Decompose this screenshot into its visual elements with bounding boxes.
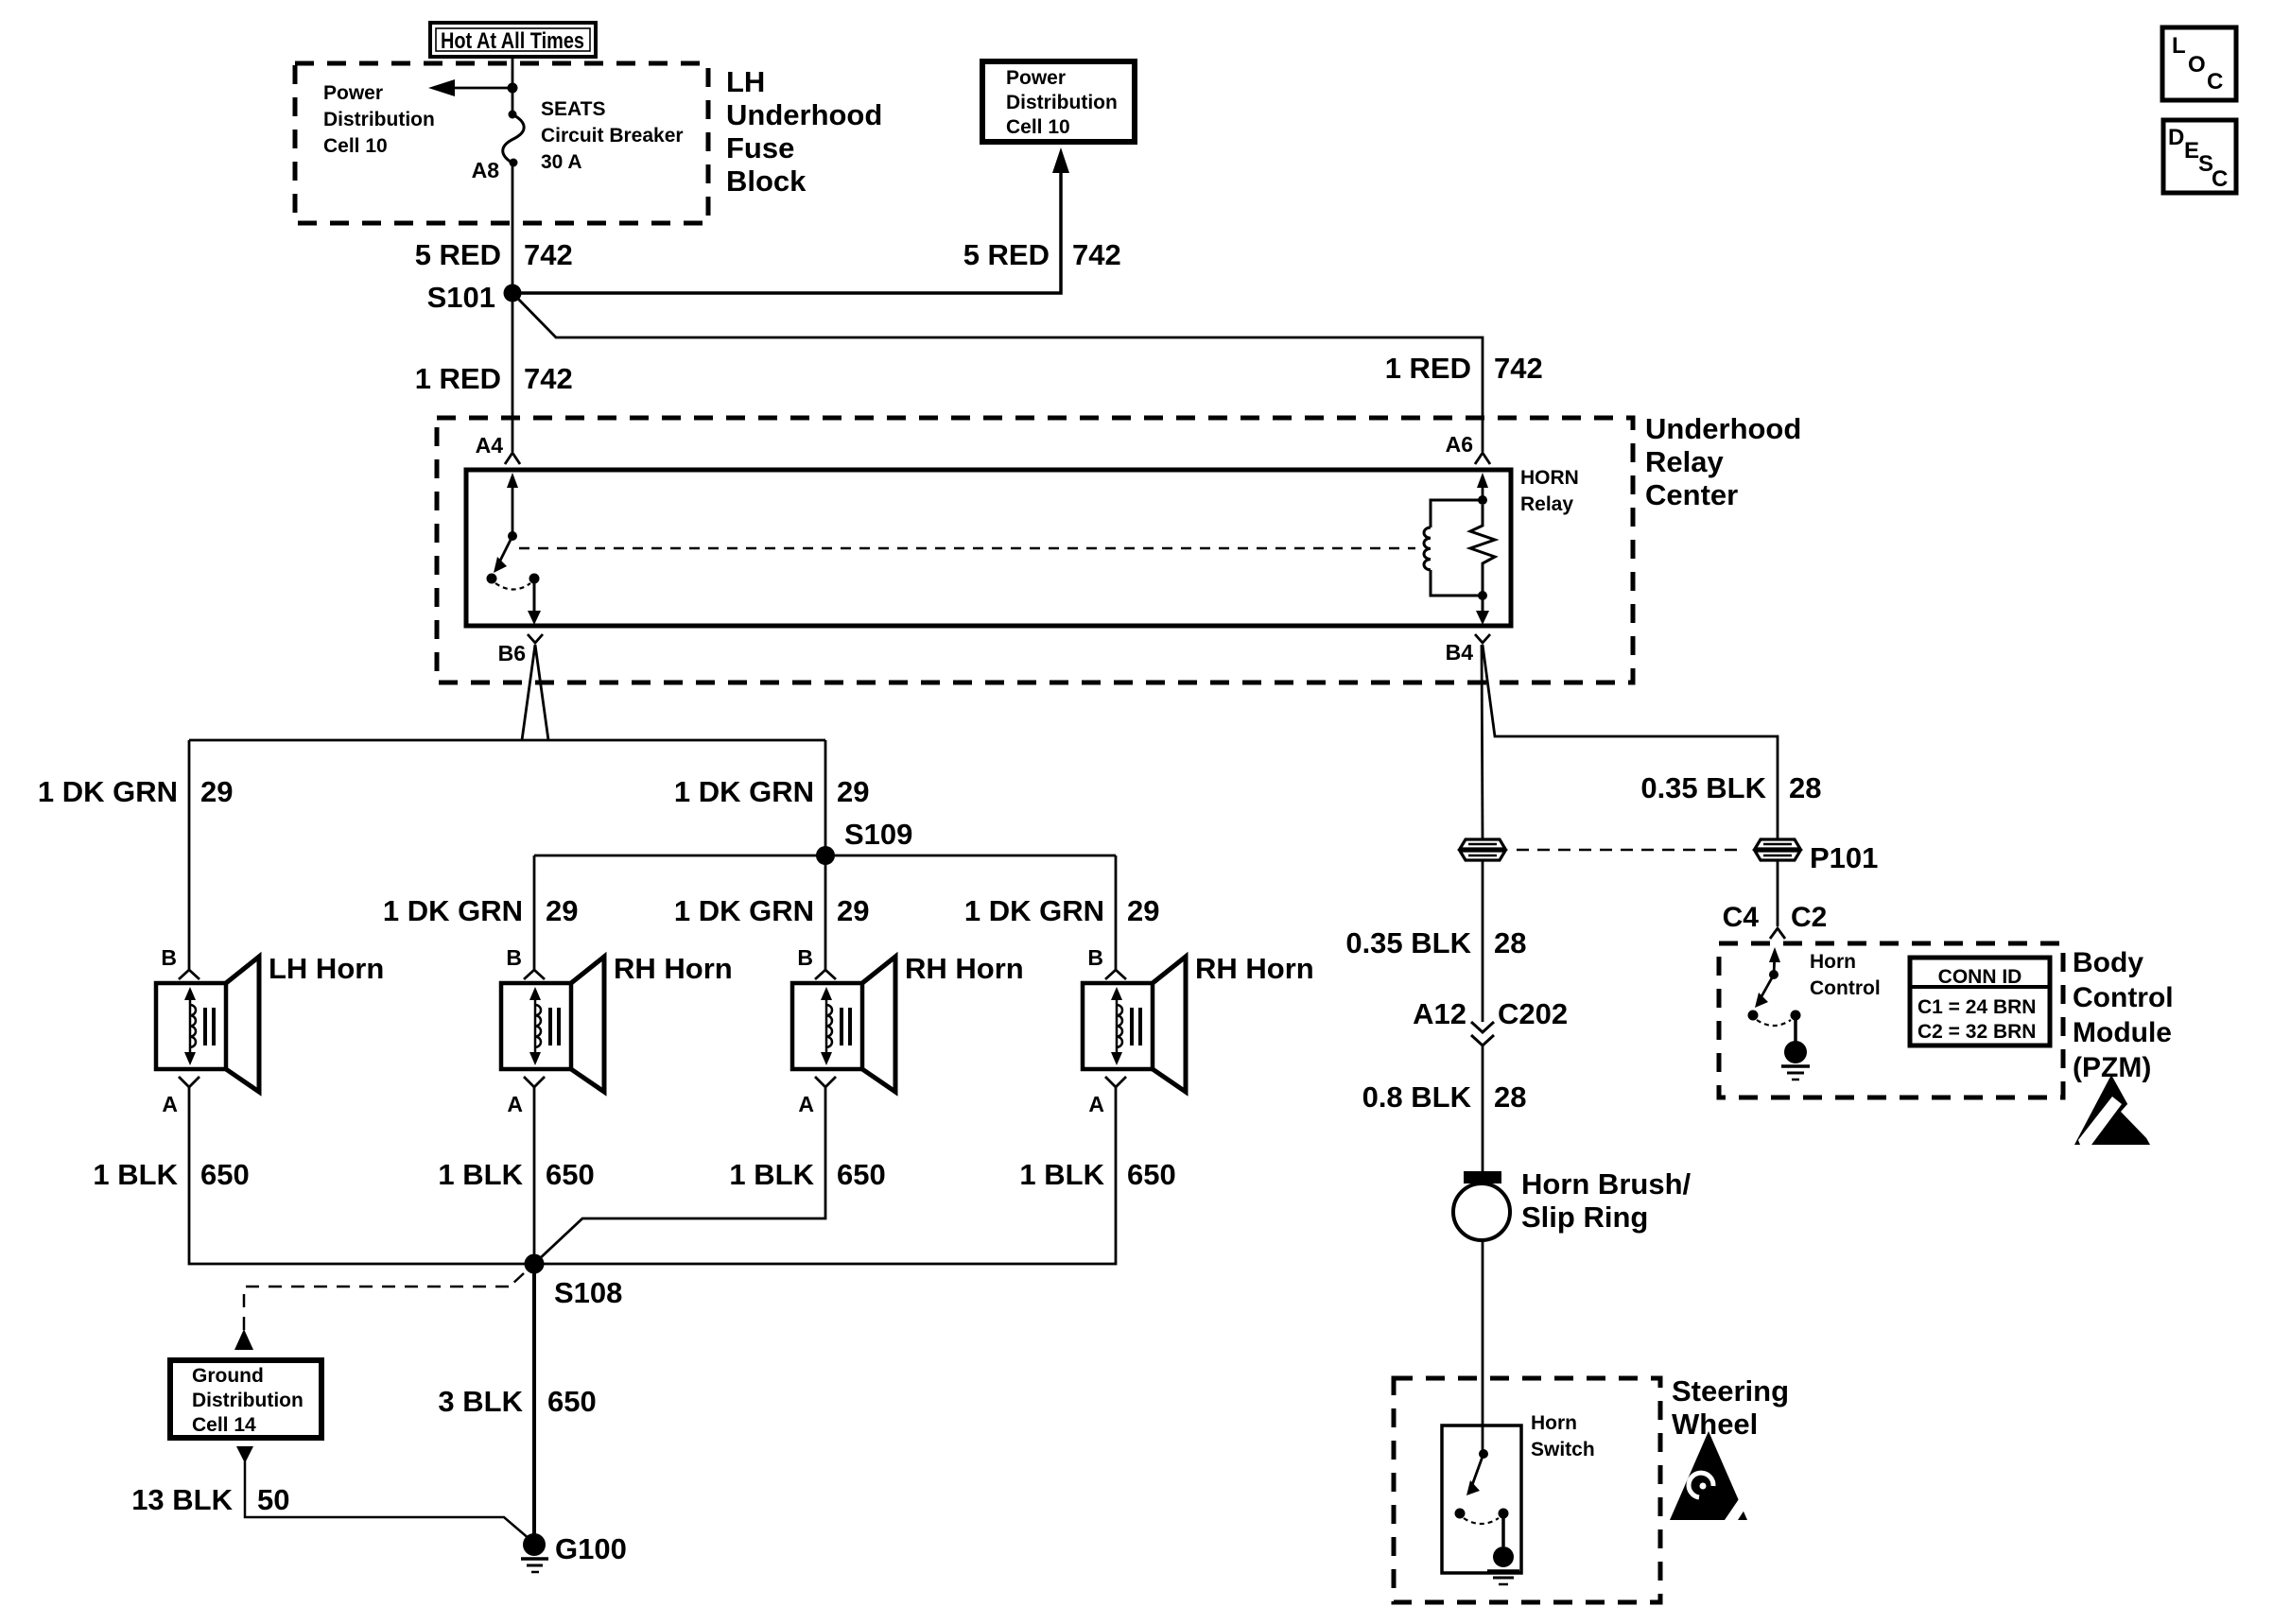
horn body (RH Horn 3) <box>1083 983 1153 1069</box>
wire label 1 DK GRN 29 (S109 feed) <box>674 775 870 808</box>
svg-text:Relay: Relay <box>1645 445 1724 478</box>
horn control switch in BCM <box>1748 947 1801 1042</box>
svg-text:C2: C2 <box>1791 902 1827 933</box>
svg-text:C: C <box>2207 69 2223 95</box>
wire label 1 RED 742 (left) <box>415 362 573 395</box>
svg-text:C: C <box>2212 166 2228 192</box>
wire S101 to Power Distribution Cell 10 (top) <box>512 170 1061 293</box>
Steering Wheel dashed box <box>1394 1378 1660 1602</box>
svg-text:A8: A8 <box>472 158 500 182</box>
splice S108 <box>525 1254 623 1310</box>
wire LH horn to S108 <box>189 1087 525 1264</box>
wire S109 distribution horizontal <box>534 855 1116 857</box>
svg-text:B: B <box>1087 945 1103 970</box>
svg-text:LH Horn: LH Horn <box>269 952 384 985</box>
wire from Hot At All Times to junction <box>512 57 514 89</box>
RH Horn 3 <box>1083 945 1314 1116</box>
svg-text:Horn: Horn <box>1531 1412 1577 1434</box>
svg-text:LH: LH <box>726 65 765 98</box>
svg-text:1 DK GRN: 1 DK GRN <box>383 894 523 927</box>
wire S109 to RH horn 3 <box>1115 855 1118 970</box>
svg-text:1 BLK: 1 BLK <box>93 1158 178 1191</box>
label LH Underhood Fuse Block <box>726 65 882 198</box>
svg-text:Control: Control <box>2073 982 2174 1013</box>
svg-text:B4: B4 <box>1446 640 1474 665</box>
svg-text:29: 29 <box>837 894 869 927</box>
wire RH horn 1 to S108 <box>533 1087 536 1264</box>
horn brush / slip ring <box>1453 1171 1510 1240</box>
svg-text:650: 650 <box>1127 1158 1176 1191</box>
Power Distribution Cell 10 box <box>982 61 1135 142</box>
svg-text:Wheel: Wheel <box>1672 1408 1758 1441</box>
svg-text:D: D <box>2168 125 2184 150</box>
svg-text:742: 742 <box>524 362 573 395</box>
horn body (RH Horn 1) <box>501 983 571 1069</box>
svg-text:Fuse: Fuse <box>726 131 794 164</box>
svg-text:Distribution: Distribution <box>323 109 435 130</box>
svg-text:29: 29 <box>1127 894 1159 927</box>
pin B4 <box>1446 634 1490 665</box>
svg-text:29: 29 <box>546 894 578 927</box>
wire junction to breaker <box>512 88 514 114</box>
label Horn Switch <box>1531 1412 1595 1460</box>
svg-text:1 BLK: 1 BLK <box>729 1158 814 1191</box>
dashed link P101 pair <box>1517 849 1744 852</box>
svg-text:Underhood: Underhood <box>1645 412 1801 445</box>
pin B6 <box>498 634 543 665</box>
svg-text:650: 650 <box>837 1158 886 1191</box>
wire B4 to P101 branch <box>1483 645 1778 839</box>
svg-text:SEATS: SEATS <box>541 98 605 120</box>
svg-text:0.35 BLK: 0.35 BLK <box>1640 771 1766 804</box>
svg-text:B: B <box>506 945 522 970</box>
svg-text:A4: A4 <box>476 433 504 458</box>
ESD symbol (steering wheel) <box>1670 1431 1747 1520</box>
wire A8 to S101 <box>512 163 514 293</box>
svg-text:Power: Power <box>1006 67 1066 89</box>
svg-text:Cell 10: Cell 10 <box>1006 116 1070 138</box>
svg-text:1 DK GRN: 1 DK GRN <box>674 894 814 927</box>
splice S109 <box>816 818 912 865</box>
dashed link S108 to Ground Distribution <box>234 1273 524 1350</box>
svg-text:Horn Brush/: Horn Brush/ <box>1521 1167 1692 1201</box>
pin A (RH Horn 2) <box>815 1077 836 1087</box>
label Horn Control <box>1810 951 1881 999</box>
wire label 1 DK GRN 29 (LH horn) <box>38 775 234 808</box>
pin A (LH Horn) <box>179 1077 200 1087</box>
svg-text:A: A <box>507 1092 523 1116</box>
pin A4 <box>476 433 520 464</box>
svg-text:Circuit Breaker: Circuit Breaker <box>541 125 684 147</box>
wire label 1 BLK 650 (RH horn 2) <box>729 1158 885 1191</box>
wire horn bus horizontal <box>189 739 825 742</box>
ground (BCM horn control) <box>1781 1041 1810 1080</box>
connector chevron C2 <box>1770 928 1785 939</box>
arrow into Power Distribution Cell 10 <box>1052 147 1069 173</box>
svg-text:O: O <box>2188 52 2206 78</box>
Hot At All Times box <box>430 23 596 57</box>
ESD symbol (BCM) <box>2074 1075 2153 1145</box>
wire label 5 RED 742 (left) <box>415 238 573 271</box>
wire label 1 DK GRN 29 (RH horn 3) <box>964 894 1160 927</box>
svg-text:Distribution: Distribution <box>1006 92 1118 113</box>
junction dot at breaker feed <box>508 83 518 94</box>
wire to LH horn <box>188 740 191 970</box>
svg-text:RH Horn: RH Horn <box>614 952 733 985</box>
svg-text:1 DK GRN: 1 DK GRN <box>674 775 814 808</box>
svg-text:E: E <box>2184 138 2199 164</box>
svg-text:Power: Power <box>323 82 383 104</box>
wire label 0.35 BLK 28 (steering branch) <box>1345 926 1526 959</box>
svg-text:Cell 14: Cell 14 <box>192 1414 256 1436</box>
wire label 1 RED 742 (right) <box>1385 352 1543 385</box>
wire S101 to A6 <box>515 296 1483 452</box>
svg-text:S108: S108 <box>554 1276 622 1309</box>
wire B6 split <box>522 645 548 740</box>
svg-text:B: B <box>161 945 177 970</box>
svg-text:650: 650 <box>200 1158 250 1191</box>
svg-text:Control: Control <box>1810 977 1881 999</box>
pin A (RH Horn 3) <box>1105 1077 1126 1087</box>
svg-text:28: 28 <box>1494 1080 1526 1114</box>
Ground Distribution Cell 14 box <box>170 1360 321 1438</box>
wire label 0.8 BLK 28 <box>1362 1080 1527 1114</box>
HORN relay coil and resistor <box>1424 473 1495 625</box>
label Underhood Relay Center <box>1645 412 1801 511</box>
ground G100 <box>521 1532 627 1572</box>
arrow to Power Distribution (left) <box>428 79 512 96</box>
svg-text:28: 28 <box>1494 926 1526 959</box>
svg-text:3 BLK: 3 BLK <box>438 1385 523 1418</box>
svg-text:C1 = 24 BRN: C1 = 24 BRN <box>1917 996 2036 1018</box>
LH Underhood Fuse Block dashed box <box>295 63 708 223</box>
wire connector to C202 <box>1482 860 1484 1022</box>
label Horn Brush / Slip Ring <box>1521 1167 1692 1234</box>
svg-text:742: 742 <box>524 238 573 271</box>
svg-text:1 RED: 1 RED <box>1385 352 1471 385</box>
svg-text:Module: Module <box>2073 1017 2172 1048</box>
wire C202 to horn brush <box>1482 1045 1484 1172</box>
Body Control Module dashed box <box>1719 943 2063 1097</box>
inline connector P101 <box>1755 839 1800 860</box>
svg-text:Body: Body <box>2073 947 2143 978</box>
svg-text:1 RED: 1 RED <box>415 362 501 395</box>
label HORN Relay <box>1520 467 1579 515</box>
svg-text:Hot At All Times: Hot At All Times <box>441 28 584 54</box>
horn body (RH Horn 2) <box>792 983 862 1069</box>
horn switch box <box>1442 1425 1521 1573</box>
wire label 13 BLK 50 <box>131 1483 289 1516</box>
wire 13 BLK 50 to G100 <box>245 1461 530 1540</box>
svg-text:C4: C4 <box>1723 902 1760 933</box>
svg-text:650: 650 <box>547 1385 597 1418</box>
svg-text:A: A <box>1088 1092 1104 1116</box>
wire slip ring to horn switch <box>1482 1240 1484 1454</box>
svg-text:742: 742 <box>1072 238 1121 271</box>
relay actuation dashed link <box>519 547 1415 550</box>
svg-text:Distribution: Distribution <box>192 1390 304 1411</box>
inline connector A12 / C202 <box>1471 1022 1494 1045</box>
wire label 1 BLK 650 (RH horn 1) <box>438 1158 594 1191</box>
svg-text:30 A: 30 A <box>541 151 582 173</box>
wire label 3 BLK 650 <box>438 1385 596 1418</box>
svg-text:29: 29 <box>200 775 233 808</box>
inline connector (steering column side) <box>1460 839 1505 860</box>
svg-text:1 BLK: 1 BLK <box>438 1158 523 1191</box>
wire label 1 DK GRN 29 (RH horn 2) <box>674 894 870 927</box>
label Body Control Module (PZM) <box>2073 947 2174 1083</box>
wire S101 to A4 <box>512 293 514 452</box>
pin A (RH Horn 1) <box>524 1077 545 1087</box>
value label SEATS Circuit Breaker 30 A <box>541 98 684 173</box>
horn body (LH Horn) <box>156 983 226 1069</box>
svg-text:0.35 BLK: 0.35 BLK <box>1345 926 1471 959</box>
svg-text:A: A <box>798 1092 814 1116</box>
svg-text:0.8 BLK: 0.8 BLK <box>1362 1080 1472 1114</box>
wire S109 to RH horn 1 <box>533 855 536 970</box>
Underhood Relay Center dashed box <box>437 418 1633 682</box>
wire to S109 <box>824 740 827 855</box>
svg-text:C202: C202 <box>1498 997 1568 1030</box>
svg-text:Slip Ring: Slip Ring <box>1521 1201 1648 1234</box>
DESC reference box <box>2163 120 2236 193</box>
svg-text:HORN: HORN <box>1520 467 1579 489</box>
svg-text:742: 742 <box>1494 352 1543 385</box>
svg-text:1 DK GRN: 1 DK GRN <box>964 894 1104 927</box>
ground (horn switch) <box>1487 1546 1519 1584</box>
svg-text:CONN ID: CONN ID <box>1938 966 2022 988</box>
wire label 1 DK GRN 29 (RH horn 1) <box>383 894 579 927</box>
svg-text:S109: S109 <box>844 818 912 851</box>
label Steering Wheel <box>1672 1374 1789 1441</box>
svg-text:RH Horn: RH Horn <box>1195 952 1314 985</box>
svg-text:RH Horn: RH Horn <box>905 952 1024 985</box>
svg-text:A12: A12 <box>1413 997 1466 1030</box>
wire label 1 BLK 650 (RH horn 3) <box>1019 1158 1175 1191</box>
wire label 0.35 BLK 28 (P101 branch) <box>1640 771 1821 804</box>
svg-text:1 BLK: 1 BLK <box>1019 1158 1104 1191</box>
svg-text:13 BLK: 13 BLK <box>131 1483 233 1516</box>
svg-text:A: A <box>162 1092 178 1116</box>
LOC reference box <box>2162 27 2236 100</box>
svg-text:1 DK GRN: 1 DK GRN <box>38 775 178 808</box>
svg-text:650: 650 <box>546 1158 595 1191</box>
svg-text:Cell 10: Cell 10 <box>323 135 388 157</box>
relay solid box <box>466 470 1511 626</box>
svg-text:L: L <box>2172 33 2186 59</box>
LH Horn <box>156 945 384 1116</box>
wire RH horn 3 to S108 <box>544 1087 1116 1264</box>
wire 3 BLK 650 S108 to G100 <box>532 1264 536 1545</box>
svg-text:Horn: Horn <box>1810 951 1856 973</box>
svg-text:P101: P101 <box>1810 841 1878 874</box>
horn switch contacts <box>1455 1449 1509 1546</box>
svg-text:Ground: Ground <box>192 1365 264 1387</box>
wire P101 to C2 <box>1777 860 1779 926</box>
svg-text:C2 = 32 BRN: C2 = 32 BRN <box>1917 1021 2036 1043</box>
wire RH horn 2 to S108 <box>537 1087 825 1261</box>
svg-text:Relay: Relay <box>1520 493 1573 515</box>
pin A6 <box>1446 432 1490 464</box>
svg-text:B6: B6 <box>498 641 526 665</box>
label Power Distribution Cell 10 (fuse block) <box>323 82 435 157</box>
svg-text:5 RED: 5 RED <box>963 238 1050 271</box>
RH Horn 2 <box>792 945 1024 1116</box>
splice S101 <box>427 281 522 314</box>
arrow from Ground Distribution <box>236 1446 253 1463</box>
CONN ID table <box>1910 958 2050 1045</box>
wire B4 down to connector <box>1482 645 1483 840</box>
wire label 1 BLK 650 (LH horn) <box>93 1158 249 1191</box>
RH Horn 1 <box>501 945 733 1116</box>
svg-text:5 RED: 5 RED <box>415 238 501 271</box>
relay switch contacts (A4 to B6) <box>487 473 542 625</box>
svg-text:28: 28 <box>1789 771 1821 804</box>
svg-text:Block: Block <box>726 164 807 198</box>
svg-text:A6: A6 <box>1446 432 1473 457</box>
wire label 5 RED 742 (right) <box>963 238 1121 271</box>
svg-text:50: 50 <box>257 1483 289 1516</box>
svg-text:S101: S101 <box>427 281 495 314</box>
svg-text:Underhood: Underhood <box>726 98 882 131</box>
wire S109 to RH horn 2 <box>824 855 827 970</box>
svg-text:Center: Center <box>1645 478 1738 511</box>
svg-text:29: 29 <box>837 775 869 808</box>
circuit breaker SEATS 30 A <box>503 111 524 167</box>
svg-text:Steering: Steering <box>1672 1374 1789 1408</box>
svg-text:G100: G100 <box>555 1532 627 1565</box>
svg-text:Switch: Switch <box>1531 1439 1595 1460</box>
svg-text:B: B <box>797 945 813 970</box>
